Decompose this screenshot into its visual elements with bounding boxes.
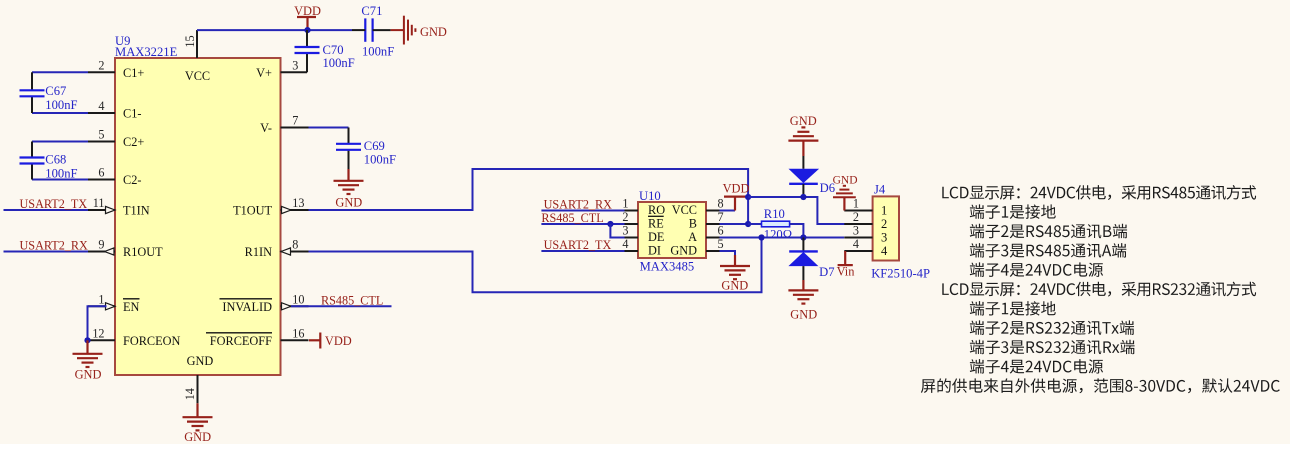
svg-text:J4: J4 [874,182,886,196]
svg-text:V+: V+ [256,66,272,80]
ground above D6 (inverted) [788,127,818,140]
IC U10 MAX3485 body [638,202,706,258]
U9 pin 11 stub [88,209,115,211]
U10 pin 3 stub (left) [625,237,639,239]
svg-text:DE: DE [648,230,664,244]
capacitor C70 [295,47,320,53]
svg-text:2: 2 [853,210,859,224]
node D6 junction [800,194,806,200]
svg-text:7: 7 [292,114,298,128]
svg-text:VDD: VDD [294,4,321,18]
U10 pin 1 stub (left) [625,210,639,212]
svg-text:100nF: 100nF [362,44,394,58]
svg-text:8: 8 [718,197,724,211]
U9 pin 3 stub [281,71,308,73]
wire USART2_RX to U10 pin1 [541,210,624,212]
C71 right lead [373,29,391,31]
svg-text:B: B [689,217,697,231]
svg-text:T1OUT: T1OUT [233,204,272,218]
svg-text:GND: GND [721,279,748,293]
U9 pin 7 stub [281,127,309,129]
U9 pin 15 stub (top) [196,30,198,58]
svg-text:EN: EN [123,300,140,314]
capacitor C67 [20,90,45,96]
capacitor C67 leads [31,72,33,90]
U9 pin 9 stub [88,251,115,253]
svg-text:9: 9 [98,238,104,252]
svg-text:Vin: Vin [837,264,855,278]
note line 11 : 屏的供电来自外供电源，范围8-30VDC，默认24VDC (ends x=1280.3) [921,379,935,393]
note line 10 : 端子4是24VDC电源 (ends x=1103.6) [970,359,984,374]
svg-text:6: 6 [98,166,104,180]
svg-text:1: 1 [98,293,104,307]
svg-text:100nF: 100nF [364,152,396,166]
U10 pin 8 stub (right) [706,210,720,212]
svg-text:C71: C71 [361,4,382,18]
svg-text:8: 8 [292,238,298,252]
svg-text:T1IN: T1IN [123,204,150,218]
wire V- to C69 [309,127,349,129]
svg-text:USART2_TX: USART2_TX [20,197,88,211]
U10 pin 6 stub (right) [706,237,720,239]
U9 pin 12 stub [88,339,115,341]
svg-text:10: 10 [292,293,304,307]
wire U10 pin8 to VDD [720,210,736,212]
svg-text:1: 1 [853,197,859,211]
svg-text:4: 4 [881,244,888,258]
svg-text:2: 2 [622,210,628,224]
svg-text:100nF: 100nF [323,56,355,70]
svg-text:RE: RE [648,217,664,231]
ground below U10 pin 5 [720,266,750,279]
power port Vin at J4 pin4 [838,251,853,265]
U9 pin 16 stub [281,339,309,341]
wire junction to pin3 [610,224,624,238]
wire RS485_CTL from INVALID [291,305,392,307]
ground stub pin 14 [196,403,198,417]
note line 3 : 端子2是RS485通讯B端 (ends x=1127.8) [970,224,984,239]
svg-text:VCC: VCC [672,203,697,217]
ground stub below D7 [802,280,804,290]
U10 pin 4 stub (left) [625,250,639,252]
svg-text:R1OUT: R1OUT [123,245,163,259]
wire R1IN loop to A net [309,238,762,293]
capacitor C69 leads [348,128,350,144]
svg-text:100nF: 100nF [45,98,77,112]
U9 active-low overlines (EN, INVALID, FORCEOFF) [123,298,140,300]
note line 6 : LCD显示屏：24VDC供电，采用RS232通讯方式 (ends x=1256.1) [942,283,949,295]
svg-text:R10: R10 [764,207,785,221]
svg-text:C68: C68 [45,152,66,166]
svg-text:USART2_RX: USART2_RX [544,198,613,212]
diode D6 bottom lead [802,184,804,197]
svg-text:RS485_CTL: RS485_CTL [541,211,603,225]
C69 ground stub [347,169,349,181]
svg-text:1: 1 [881,204,887,218]
ground stub U10 pin5 [734,255,736,266]
wire B net upper branch [748,197,845,224]
U10 pin names [648,203,697,258]
node pin12 junction [84,337,90,343]
svg-text:U10: U10 [639,189,661,203]
node B-net upper junction [745,194,751,200]
node B-net lower junction [745,221,751,227]
svg-text:V-: V- [260,121,272,135]
capacitor C68 [20,158,45,164]
svg-text:14: 14 [183,388,197,400]
ground below D7 [788,290,818,303]
J4 pin 3 stub [844,237,872,239]
note line 8 : 端子2是RS232通讯Tx端 (ends x=1134.7) [970,320,984,335]
IC U9 MAX3221E body [115,58,281,375]
svg-text:VCC: VCC [185,69,210,83]
node A-net junction at loop [758,234,764,240]
wire R10 right to A line [790,224,804,238]
svg-text:100nF: 100nF [45,167,77,181]
svg-text:INVALID: INVALID [222,300,272,314]
wire U10 pin6 to A net [720,237,762,239]
svg-text:VDD: VDD [325,334,352,348]
ground below pin 14 [183,417,213,430]
svg-text:6: 6 [718,224,724,238]
note line 2 : 端子1是接地 (ends x=1056.3) [970,204,984,219]
ground stub at pin 12 [86,340,88,353]
svg-text:GND: GND [75,368,102,382]
wire VCC rail (pin15 to C71) [197,29,352,31]
svg-text:KF2510-4P: KF2510-4P [871,266,930,280]
capacitor C69 [336,144,361,150]
capacitor C71 (horizontal) [365,18,372,41]
svg-text:DI: DI [648,244,661,258]
note line 9 : 端子3是RS232通讯Rx端 (ends x=1135.3) [970,340,984,355]
note line 5 : 端子4是24VDC电源 (ends x=1103.6) [970,262,984,277]
node A-net junction at D7 [800,234,806,240]
wire USART2_TX to U10 pin4 [541,250,624,252]
svg-text:C2+: C2+ [123,135,144,149]
svg-text:3: 3 [292,59,298,73]
svg-text:C2-: C2- [123,173,141,187]
svg-text:A: A [688,230,697,244]
diode D6 top lead [802,156,804,169]
svg-text:C1-: C1- [123,107,141,121]
power ground after C71 (rotated) [391,16,416,45]
J4 pin 1 stub [844,210,872,212]
U10 pin 7 stub (right) [706,223,720,225]
U10 RE overline [648,215,664,217]
power port VDD at U10 pin 8 [724,197,746,211]
svg-text:C70: C70 [323,43,344,57]
svg-text:120Ω: 120Ω [764,227,792,241]
U10 pin 5 stub (right) [706,250,720,252]
capacitor C68 leads [31,142,33,158]
ground below C69 [334,181,364,194]
U9 pin 8 stub [281,251,309,253]
U9 pin 13 stub [281,209,309,211]
svg-text:C67: C67 [45,84,66,98]
wire EN loop to ground [88,306,107,340]
power port VDD (top) [297,17,316,30]
svg-text:11: 11 [93,196,105,210]
U9 pin 5 stub [88,141,115,143]
svg-text:RO: RO [648,203,665,217]
svg-text:RS485_CTL: RS485_CTL [321,293,383,307]
svg-text:VDD: VDD [723,181,750,195]
svg-text:2: 2 [881,217,887,231]
connector J4 body [873,196,899,260]
U9 pin 1 stub [88,305,115,307]
svg-text:16: 16 [292,327,304,341]
svg-text:GND: GND [420,25,447,39]
svg-text:2: 2 [98,59,104,73]
J4 pin 4 stub [844,250,872,252]
svg-text:USART2_TX: USART2_TX [544,238,612,252]
diode D6 [789,169,820,183]
J4 pin 2 stub [844,223,872,225]
wire RS485_CTL to U10 pin2 [541,223,624,225]
U10 pin 2 stub (left) [625,223,639,225]
diode D7 top lead [802,238,804,252]
resistor R10 [762,221,790,227]
wire C67 loop [32,71,88,73]
svg-text:5: 5 [98,128,104,142]
ground below pin 12 [73,354,103,367]
ground stub above D6 [802,141,804,156]
wire A line [762,237,845,239]
wire U10 pin7 to B net [720,223,749,225]
svg-text:GND: GND [187,354,214,368]
svg-text:FORCEON: FORCEON [123,334,181,348]
wire J4 pin1 to ground [843,198,845,211]
svg-text:15: 15 [183,35,197,47]
svg-text:FORCEOFF: FORCEOFF [210,334,272,348]
note line 1 : LCD显示屏：24VDC供电，采用RS485通讯方式 (ends x=1256.1) [942,187,949,199]
svg-text:12: 12 [92,327,104,341]
U9 pin 2 stub [88,71,115,73]
U9 pin direction arrows [106,206,116,213]
U9 pin 10 stub [281,305,309,307]
svg-text:3: 3 [881,231,887,245]
svg-text:GND: GND [833,175,858,187]
svg-text:MAX3485: MAX3485 [640,260,695,274]
svg-text:1: 1 [622,197,628,211]
svg-text:GND: GND [790,114,817,128]
svg-text:USART2_RX: USART2_RX [20,239,89,253]
node VDD junction [304,27,310,33]
U9 pin 6 stub [88,179,115,181]
svg-text:R1IN: R1IN [245,245,272,259]
U9 pin 4 stub [88,112,115,114]
wire B line into R10 [748,223,761,225]
svg-text:GND: GND [335,196,362,210]
diode D7 bottom lead [802,266,804,280]
power port VDD at FORCEOFF (bar style) [309,333,320,349]
svg-text:5: 5 [718,237,724,251]
note line 7 : 端子1是接地 (ends x=1056.3) [970,301,984,316]
wire USART2_RX into R1OUT [4,251,89,253]
svg-text:GND: GND [184,430,211,444]
svg-text:4: 4 [622,237,628,251]
svg-text:GND: GND [790,307,817,321]
wire C68 loop [32,141,88,143]
U9 pin 14 stub (bottom) [197,375,199,403]
node RS485_CTL junction [607,221,613,227]
svg-text:C69: C69 [364,139,385,153]
svg-text:7: 7 [718,210,724,224]
svg-text:D7: D7 [819,265,834,279]
capacitor C70 leads [306,30,308,47]
svg-text:3: 3 [622,224,628,238]
svg-text:4: 4 [853,237,859,251]
wire U10 pin5 to ground [720,251,736,256]
svg-text:GND: GND [670,244,697,258]
svg-text:4: 4 [98,99,104,113]
wire T1OUT loop to B net [309,169,749,224]
diode D7 [789,250,818,252]
svg-text:MAX3221E: MAX3221E [115,45,178,59]
wire USART2_TX into T1IN [4,209,89,211]
svg-text:3: 3 [853,224,859,238]
svg-text:C1+: C1+ [123,66,144,80]
svg-text:13: 13 [292,196,304,210]
note line 4 : 端子3是RS485通讯A端 (ends x=1127.0) [970,243,984,257]
U9 pin names [123,66,272,368]
